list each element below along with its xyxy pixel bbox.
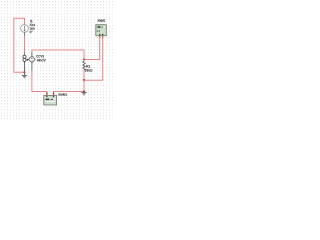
CCVS control arrow	[26, 59, 29, 61]
multimeter XMM1 icon	[44, 95, 57, 105]
CCVS sense coil (input side)	[23, 55, 26, 72]
XMM1 terminal stubs	[47, 92, 54, 95]
junction node at R1 bottom (84,80.1)	[83, 79, 85, 81]
junction node at R1 top (84,59.5)	[83, 58, 85, 60]
ground (right, under R1 bottom net)	[81, 92, 86, 95]
wire R1 bottom node right and up to XMM2 - terminal	[84, 36, 103, 80]
I1 value label (I1 / 20mA / 1kHz / 0deg)	[30, 20, 36, 33]
current source I1	[21, 25, 29, 56]
CCVS pins (top and bottom of diamond)	[31, 52, 33, 71]
wire from I1 top around left side down to CCVS sense input node	[14, 18, 25, 72]
CCVS label and gain value	[36, 55, 45, 62]
wire CCVS- output down and right to XMM1 + terminal	[32, 71, 47, 93]
wire R1 bottom node down to bottom ground node	[83, 80, 85, 91]
ground (left, under sense coil)	[22, 72, 27, 78]
XMM2 label	[97, 19, 105, 22]
XMM1 label	[58, 93, 67, 95]
junction node at bottom ground net (84,91.4)	[83, 90, 85, 92]
wire from I1 bottom pin to CCVS sense coil top pin	[24, 36, 26, 52]
resistor R1	[83, 60, 85, 81]
junction node at sense input (24.5,72.2)	[23, 71, 25, 73]
R1 label and value 390 Ohm	[85, 65, 93, 72]
CCVS output diamond	[29, 56, 36, 63]
wire R1 top node right and up to XMM2 + terminal	[84, 36, 100, 60]
wire XMM1 - terminal right to bottom ground node	[54, 92, 85, 93]
multimeter XMM2 icon	[96, 25, 107, 36]
wire CCVS+ output up and right, down to R1 top node	[32, 50, 84, 59]
XMM2 terminal stubs	[100, 36, 103, 38]
